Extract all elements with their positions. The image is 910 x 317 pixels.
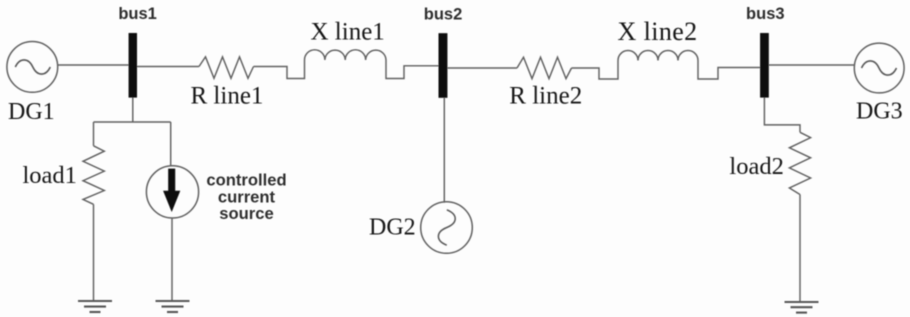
svg-text:source: source — [219, 204, 273, 223]
svg-text:R line1: R line1 — [191, 83, 264, 110]
svg-text:R line2: R line2 — [509, 83, 582, 110]
svg-text:X line2: X line2 — [618, 17, 698, 46]
svg-text:load2: load2 — [729, 153, 783, 180]
svg-text:X line1: X line1 — [311, 18, 385, 45]
svg-text:bus1: bus1 — [118, 5, 157, 23]
svg-text:DG3: DG3 — [856, 99, 903, 125]
svg-text:DG1: DG1 — [8, 99, 55, 125]
svg-text:bus3: bus3 — [746, 5, 785, 23]
svg-text:load1: load1 — [23, 162, 77, 189]
svg-text:bus2: bus2 — [424, 5, 463, 23]
svg-text:DG2: DG2 — [369, 215, 416, 241]
